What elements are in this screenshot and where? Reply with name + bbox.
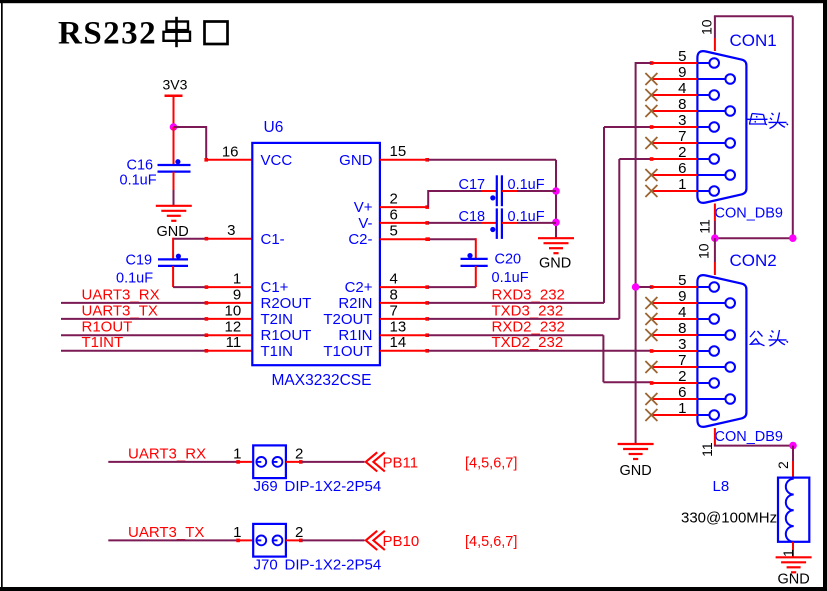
pin 9 stub bbox=[205, 302, 252, 304]
junction dot CON2 pin5 bbox=[632, 283, 640, 291]
capacitor C17 bbox=[490, 175, 502, 206]
svg-text:C20: C20 bbox=[495, 251, 522, 267]
CON2 pin numbers bbox=[678, 272, 686, 417]
wire 3V3 junction to VCC corner bbox=[174, 126, 207, 160]
label CON_DB9 CON1 bbox=[715, 205, 784, 221]
port label PB11 bbox=[383, 455, 419, 472]
inductor L8 bbox=[778, 478, 809, 542]
jumper J70 bbox=[253, 524, 286, 557]
net label RXD3_232 bbox=[492, 286, 565, 303]
svg-text:1: 1 bbox=[678, 176, 686, 193]
pin number 5 bbox=[390, 223, 398, 240]
svg-text:0.1uF: 0.1uF bbox=[492, 270, 529, 286]
svg-text:1: 1 bbox=[678, 400, 686, 417]
svg-text:2: 2 bbox=[775, 461, 791, 469]
pin 4 stub bbox=[380, 285, 429, 289]
svg-text:CON1: CON1 bbox=[730, 31, 777, 50]
svg-text:C18: C18 bbox=[459, 209, 486, 225]
pin 1 stub J70 bbox=[237, 539, 253, 541]
pin number 9 bbox=[233, 286, 241, 303]
CON2 pin stubs bbox=[650, 285, 699, 415]
label DIP-1X2-2P54 J69 bbox=[285, 478, 382, 495]
svg-text:3: 3 bbox=[678, 112, 686, 129]
pin 15 stub bbox=[380, 158, 429, 162]
pin 6 stub bbox=[380, 221, 429, 225]
svg-text:13: 13 bbox=[390, 319, 407, 336]
pin 2 stub J69 bbox=[286, 460, 303, 464]
svg-text:10: 10 bbox=[696, 243, 712, 259]
pin 10 stub CON2 bbox=[714, 262, 716, 275]
svg-text:2: 2 bbox=[295, 524, 303, 541]
svg-text:GND: GND bbox=[539, 255, 571, 271]
wire C1- to C19 bbox=[173, 238, 206, 260]
wire C2- to C20 top bbox=[426, 237, 475, 259]
pin 10 stub bbox=[205, 318, 252, 320]
op-amp U6 body MAX3232CSE bbox=[252, 143, 380, 365]
label J70 bbox=[254, 557, 278, 574]
net label RXD2_232 bbox=[492, 319, 565, 336]
svg-text:8: 8 bbox=[678, 320, 686, 337]
svg-text:GND: GND bbox=[157, 224, 189, 240]
label gong-tou male text bbox=[750, 330, 788, 346]
svg-text:R2IN: R2IN bbox=[338, 295, 372, 312]
svg-text:1: 1 bbox=[780, 549, 796, 557]
U6 left pin names bbox=[261, 152, 312, 360]
svg-text:PB10: PB10 bbox=[383, 533, 420, 550]
pin 1 stub J69 bbox=[237, 461, 253, 463]
CON2 pin circles bbox=[709, 282, 735, 420]
value C18 0.1uF bbox=[508, 209, 545, 225]
svg-text:PB11: PB11 bbox=[383, 455, 419, 472]
svg-text:RXD2_232: RXD2_232 bbox=[492, 319, 565, 336]
pin number 2 bbox=[390, 191, 398, 208]
svg-text:C1-: C1- bbox=[261, 231, 285, 248]
svg-text:V+: V+ bbox=[354, 199, 373, 216]
svg-text:DIP-1X2-2P54: DIP-1X2-2P54 bbox=[285, 478, 382, 495]
net label UART3_RX bbox=[128, 445, 206, 462]
label CON2 bbox=[730, 251, 777, 270]
label L8 bbox=[713, 478, 730, 495]
junction dot shield right bbox=[789, 234, 797, 242]
pin 3 stub bbox=[205, 237, 253, 241]
svg-text:2: 2 bbox=[678, 144, 686, 161]
svg-text:T2IN: T2IN bbox=[261, 311, 294, 328]
port chevron PB10 bbox=[366, 531, 385, 550]
wire C19 to C1+ bbox=[173, 266, 206, 287]
pin 5 stub bbox=[380, 237, 429, 241]
pin number 1 bbox=[233, 271, 241, 288]
power 3V3 label bbox=[163, 77, 188, 93]
pin number 2 J70 bbox=[295, 524, 303, 541]
svg-text:MAX3232CSE: MAX3232CSE bbox=[272, 372, 372, 389]
jumper J69 bbox=[253, 445, 286, 478]
title hanzi chuan bbox=[164, 17, 191, 47]
sheet reference [4,5,6,7] PB10 bbox=[465, 534, 517, 550]
svg-text:11: 11 bbox=[699, 442, 715, 457]
pin number 14 bbox=[390, 334, 407, 351]
pin number 8 bbox=[390, 286, 398, 303]
svg-text:C16: C16 bbox=[127, 158, 154, 174]
label CON_DB9 CON2 bbox=[715, 429, 784, 445]
wire net UART3_RX bbox=[61, 301, 208, 305]
pin 13 stub bbox=[380, 333, 429, 337]
capacitor C16 bbox=[158, 159, 191, 172]
wire UART3_TX to jumper bbox=[108, 539, 240, 543]
wire V+ to C17 bbox=[428, 190, 497, 207]
junction dot 3V3 node bbox=[170, 123, 178, 131]
pin 8 stub bbox=[380, 301, 429, 305]
value C16 0.1uF bbox=[120, 173, 157, 189]
svg-text:11: 11 bbox=[697, 219, 713, 234]
svg-text:1: 1 bbox=[233, 271, 241, 288]
svg-text:7: 7 bbox=[678, 352, 686, 369]
pin 12 stub bbox=[205, 334, 252, 336]
label U6 bbox=[264, 119, 284, 136]
svg-text:TXD3_232: TXD3_232 bbox=[492, 302, 564, 319]
label GND below CON2 bbox=[620, 463, 652, 479]
wire net UART3_TX bbox=[61, 317, 208, 321]
svg-text:UART3_RX: UART3_RX bbox=[128, 445, 206, 462]
svg-text:330@100MHz: 330@100MHz bbox=[681, 510, 777, 527]
pin number 13 bbox=[390, 319, 407, 336]
svg-text:4: 4 bbox=[390, 271, 398, 288]
svg-text:3V3: 3V3 bbox=[163, 77, 188, 93]
U6 right pin names bbox=[323, 152, 372, 360]
svg-text:10: 10 bbox=[225, 302, 242, 319]
pin number 1 J70 bbox=[233, 524, 241, 541]
label CON1 bbox=[730, 31, 777, 50]
svg-text:1: 1 bbox=[233, 524, 241, 541]
svg-text:UART3_TX: UART3_TX bbox=[82, 302, 158, 319]
svg-text:16: 16 bbox=[222, 144, 239, 161]
label MAX3232CSE bbox=[272, 372, 372, 389]
svg-text:12: 12 bbox=[225, 319, 242, 336]
svg-text:7: 7 bbox=[678, 128, 686, 145]
power 3V3 bar symbol bbox=[165, 94, 183, 97]
title text RS232 bbox=[58, 16, 157, 52]
svg-text:4: 4 bbox=[678, 80, 686, 97]
svg-text:[4,5,6,7]: [4,5,6,7] bbox=[465, 455, 517, 471]
svg-text:15: 15 bbox=[390, 143, 407, 160]
svg-text:1: 1 bbox=[233, 445, 241, 462]
wire RXD2_232 bbox=[428, 335, 651, 382]
net label TXD2_232 bbox=[492, 334, 564, 351]
svg-text:8: 8 bbox=[678, 96, 686, 113]
wire J70 to port bbox=[302, 539, 365, 541]
pin 7 stub bbox=[380, 317, 429, 321]
label C19 bbox=[126, 253, 153, 269]
wire 3V3 vertical to junction bbox=[173, 96, 175, 128]
wire GND pin15 to rail bbox=[428, 159, 556, 161]
pin 1 stub bbox=[205, 285, 253, 289]
capacitor C18 bbox=[490, 208, 502, 239]
svg-text:6: 6 bbox=[678, 384, 686, 401]
pin number 10 CON2 bbox=[696, 243, 712, 259]
pin 11 stub bbox=[205, 350, 252, 352]
CON2 no-connect x marks bbox=[645, 297, 657, 421]
svg-text:R1OUT: R1OUT bbox=[261, 327, 312, 344]
svg-text:GND: GND bbox=[339, 152, 373, 169]
pin number 16 bbox=[222, 144, 239, 161]
pin number 11 CON2 bbox=[699, 442, 715, 457]
wire C18 to gnd rail bbox=[502, 222, 556, 224]
capacitor C19 bbox=[158, 254, 188, 266]
svg-text:U6: U6 bbox=[264, 119, 284, 136]
wire CON1 shield pin10 top bbox=[714, 16, 793, 38]
svg-text:6: 6 bbox=[678, 160, 686, 177]
pin number 2 L8 bbox=[775, 461, 791, 469]
CON2 pin leads bbox=[697, 287, 725, 415]
net label R1OUT bbox=[82, 319, 133, 336]
CON1 pin numbers bbox=[678, 48, 686, 193]
svg-text:5: 5 bbox=[678, 272, 686, 289]
wire junction to C16 bbox=[173, 127, 175, 165]
svg-text:GND: GND bbox=[620, 463, 652, 479]
pin 14 stub bbox=[380, 349, 429, 353]
svg-text:RXD3_232: RXD3_232 bbox=[492, 286, 565, 303]
connector CON2 DB9 shell bbox=[697, 275, 746, 427]
net label UART3_TX bbox=[128, 524, 204, 541]
CON1 pin leads bbox=[697, 63, 725, 191]
svg-text:0.1uF: 0.1uF bbox=[120, 173, 157, 189]
svg-text:T1INT: T1INT bbox=[82, 334, 124, 351]
net label UART3_RX bbox=[82, 286, 160, 303]
label GND below C16 bbox=[157, 224, 189, 240]
port label PB10 bbox=[383, 533, 420, 550]
wire shield junction row bbox=[715, 237, 793, 239]
svg-text:VCC: VCC bbox=[261, 152, 293, 169]
svg-text:R1OUT: R1OUT bbox=[82, 319, 133, 336]
pin number 1 J69 bbox=[233, 445, 241, 462]
svg-text:11: 11 bbox=[226, 334, 242, 351]
svg-text:[4,5,6,7]: [4,5,6,7] bbox=[465, 534, 517, 550]
pin number 10 bbox=[225, 302, 242, 319]
svg-text:8: 8 bbox=[390, 286, 398, 303]
label C16 bbox=[127, 158, 154, 174]
sheet border frame bottom bbox=[0, 587, 827, 591]
CON1 no-connect x marks bbox=[645, 73, 657, 197]
svg-text:R1IN: R1IN bbox=[338, 327, 372, 344]
value C20 0.1uF bbox=[492, 270, 529, 286]
junction dot L8 node bbox=[789, 442, 797, 450]
svg-text:C2+: C2+ bbox=[345, 279, 373, 296]
net label TXD3_232 bbox=[492, 302, 564, 319]
pin number 3 bbox=[227, 222, 235, 239]
pin number 10 CON1 bbox=[699, 19, 715, 35]
CON1 pin stubs bbox=[650, 61, 699, 191]
label C17 bbox=[459, 177, 486, 193]
pin number 11 bbox=[226, 334, 242, 351]
wire net R1OUT bbox=[61, 333, 208, 337]
pin number 6 bbox=[390, 206, 398, 223]
svg-text:T2OUT: T2OUT bbox=[323, 311, 372, 328]
value C17 0.1uF bbox=[508, 177, 545, 193]
svg-text:CON_DB9: CON_DB9 bbox=[715, 429, 784, 445]
svg-text:RS232: RS232 bbox=[58, 16, 157, 52]
wire TXD2_232 bbox=[428, 350, 651, 352]
svg-text:2: 2 bbox=[678, 368, 686, 385]
svg-text:5: 5 bbox=[678, 48, 686, 65]
wire CON1 shield pin11 bottom bbox=[714, 221, 716, 238]
CON1 pin circles bbox=[709, 58, 735, 196]
pin 10 stub CON1 bbox=[714, 38, 716, 51]
sheet border frame left bbox=[1, 0, 3, 591]
svg-text:3: 3 bbox=[678, 336, 686, 353]
svg-text:T1IN: T1IN bbox=[261, 343, 294, 360]
pin number 4 bbox=[390, 271, 398, 288]
ground symbol below L8 bbox=[776, 557, 812, 572]
pin 11 stub CON2 bbox=[714, 428, 716, 446]
port chevron PB11 bbox=[366, 452, 385, 471]
net label T1INT bbox=[82, 334, 124, 351]
wire CON2 shield pin10 bbox=[714, 238, 716, 262]
svg-text:C19: C19 bbox=[126, 253, 153, 269]
wire J69 to port bbox=[302, 461, 365, 463]
svg-text:CON2: CON2 bbox=[730, 251, 777, 270]
svg-text:C1+: C1+ bbox=[261, 279, 289, 296]
svg-text:4: 4 bbox=[678, 304, 686, 321]
wire net T1INT bbox=[61, 349, 208, 353]
svg-text:0.1uF: 0.1uF bbox=[116, 271, 153, 287]
svg-text:7: 7 bbox=[390, 302, 398, 319]
ground symbol below CON2 bbox=[618, 444, 654, 459]
junction dot shield left bbox=[711, 234, 719, 242]
pin number 15 bbox=[390, 143, 407, 160]
pin number 1 L8 bbox=[780, 549, 796, 557]
svg-text:6: 6 bbox=[390, 206, 398, 223]
svg-text:V-: V- bbox=[358, 215, 372, 232]
wire C20 bottom to C2+ bbox=[428, 266, 476, 287]
svg-text:UART3_RX: UART3_RX bbox=[82, 286, 160, 303]
svg-text:9: 9 bbox=[233, 286, 241, 303]
net label UART3_TX bbox=[82, 302, 158, 319]
value 330@100MHz bbox=[681, 510, 777, 527]
pin 2 stub J70 bbox=[286, 539, 303, 543]
wire L8 to ground bbox=[792, 542, 794, 558]
svg-text:C17: C17 bbox=[459, 177, 486, 193]
wire shield rail to L8 bbox=[792, 446, 794, 479]
connector CON1 DB9 shell bbox=[697, 51, 746, 203]
wire C17 to gnd rail bbox=[502, 190, 556, 192]
wire C16 to ground bbox=[173, 172, 175, 206]
junction dot C18 gnd bbox=[552, 219, 560, 227]
wire UART3_RX to jumper bbox=[108, 460, 240, 464]
svg-text:9: 9 bbox=[678, 64, 686, 81]
wire CON2 pin11 to L8 rail bbox=[714, 445, 793, 447]
sheet border frame right bbox=[823, 0, 827, 591]
svg-text:DIP-1X2-2P54: DIP-1X2-2P54 bbox=[285, 557, 382, 574]
title hanzi kou bbox=[205, 22, 228, 45]
pin 16 VCC stub bbox=[204, 158, 252, 162]
svg-text:10: 10 bbox=[699, 19, 715, 35]
svg-text:L8: L8 bbox=[713, 478, 730, 495]
pin number 7 bbox=[390, 302, 398, 319]
sheet reference [4,5,6,7] PB11 bbox=[465, 455, 517, 471]
wire RXD3_232 bbox=[428, 127, 651, 303]
svg-text:3: 3 bbox=[227, 222, 235, 239]
label GND below L8 bbox=[778, 572, 810, 588]
svg-text:TXD2_232: TXD2_232 bbox=[492, 334, 564, 351]
label J69 bbox=[254, 478, 278, 495]
junction dot C17 gnd bbox=[552, 187, 560, 195]
svg-text:0.1uF: 0.1uF bbox=[508, 177, 545, 193]
svg-text:9: 9 bbox=[678, 288, 686, 305]
svg-text:GND: GND bbox=[778, 572, 810, 588]
svg-text:5: 5 bbox=[390, 223, 398, 240]
sheet border frame top bbox=[0, 0, 827, 3]
svg-text:J69: J69 bbox=[254, 478, 278, 495]
pin 11 stub CON1 bbox=[714, 204, 716, 222]
capacitor C20 bbox=[461, 253, 488, 266]
label GND near C17 bbox=[539, 255, 571, 271]
wire CON1 shield right rail bbox=[792, 16, 794, 238]
svg-text:J70: J70 bbox=[254, 557, 278, 574]
svg-text:14: 14 bbox=[390, 334, 407, 351]
svg-text:CON_DB9: CON_DB9 bbox=[715, 205, 784, 221]
ground symbol near C17 C18 bbox=[538, 238, 574, 253]
wire DB9 pin5 gnd net bbox=[636, 62, 652, 444]
label C18 bbox=[459, 209, 486, 225]
pin number 11 CON1 bbox=[697, 219, 713, 234]
wire V- to C18 bbox=[428, 222, 497, 224]
svg-text:2: 2 bbox=[390, 191, 398, 208]
label mu-tou female text bbox=[748, 113, 789, 129]
svg-text:2: 2 bbox=[295, 445, 303, 462]
svg-text:R2OUT: R2OUT bbox=[261, 295, 312, 312]
svg-text:0.1uF: 0.1uF bbox=[508, 209, 545, 225]
pin 2 stub bbox=[380, 205, 429, 209]
wire GND vertical rail bbox=[555, 160, 557, 238]
value C19 0.1uF bbox=[116, 271, 153, 287]
svg-text:C2-: C2- bbox=[348, 231, 372, 248]
svg-text:UART3_TX: UART3_TX bbox=[128, 524, 204, 541]
pin number 2 J69 bbox=[295, 445, 303, 462]
label C20 bbox=[495, 251, 522, 267]
label DIP-1X2-2P54 J70 bbox=[285, 557, 382, 574]
svg-text:T1OUT: T1OUT bbox=[323, 343, 372, 360]
ground symbol below C16 bbox=[156, 206, 192, 221]
pin number 12 bbox=[225, 319, 242, 336]
wire TXD3_232 bbox=[428, 159, 651, 319]
